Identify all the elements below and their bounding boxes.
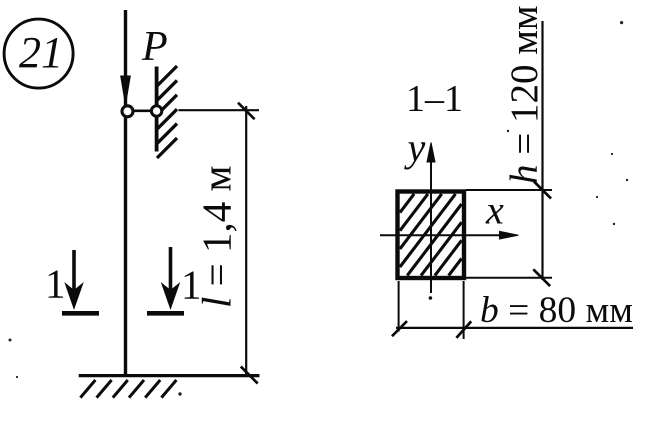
wall line — [155, 67, 159, 152]
tick at bottom of l dimension — [241, 367, 258, 384]
task number circle 21 — [4, 19, 73, 88]
y axis — [427, 143, 435, 294]
cross-section hatching — [400, 194, 462, 276]
svg-text:21: 21 — [19, 28, 63, 77]
ground line — [79, 374, 260, 377]
extension line h bottom — [466, 277, 552, 279]
extension line h top — [466, 189, 552, 191]
tick at top of h dimension — [534, 182, 551, 199]
svg-text:1–1: 1–1 — [406, 78, 463, 120]
cross-section square outline — [398, 192, 465, 279]
svg-text:1: 1 — [45, 261, 66, 307]
pin link between hinge circles — [126, 110, 156, 113]
svg-text:x: x — [485, 188, 504, 233]
svg-text:P: P — [141, 24, 168, 70]
svg-text:y: y — [404, 125, 426, 170]
dimension line h (vertical) — [541, 21, 543, 280]
svg-text:l = 1,4 м: l = 1,4 м — [194, 166, 240, 308]
wall hatching — [157, 66, 177, 158]
dimension line b (horizontal, extended under text) — [396, 327, 633, 329]
tick at left of b dimension — [392, 321, 407, 336]
tick at right of b dimension — [456, 321, 471, 338]
x axis — [380, 231, 519, 239]
extension line b left (below square) — [398, 281, 400, 332]
dimension line l (vertical) — [245, 106, 247, 376]
tick at bottom of h dimension — [533, 269, 550, 286]
ground hatching — [80, 380, 176, 398]
pin hinge circle right — [151, 106, 161, 116]
section cut arrow left — [62, 250, 99, 313]
centre dot below section — [429, 296, 433, 300]
svg-text:h = 120 мм: h = 120 мм — [503, 5, 546, 184]
tick at top of l dimension — [238, 103, 255, 120]
pin hinge circle left — [122, 106, 133, 117]
extension line b right (below square) — [463, 281, 465, 339]
svg-text:b = 80 мм: b = 80 мм — [480, 290, 633, 331]
section cut arrow right — [147, 247, 184, 313]
load arrow P (arrowhead) — [121, 76, 131, 105]
dimension extension line (top, from pin to dimension line) — [179, 109, 260, 111]
column (vertical rod) — [124, 10, 127, 375]
